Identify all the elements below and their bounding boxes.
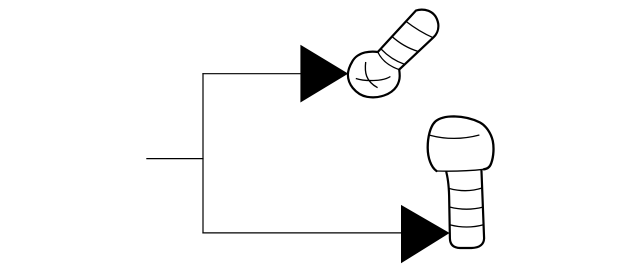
screw S1: shaft <box>378 10 439 70</box>
screw S1: head rim at shaft <box>378 52 399 70</box>
screw S1: phillips slot horizontal arc <box>356 77 391 81</box>
bolt B1: head (dome cap) fill and outline <box>428 116 494 171</box>
wire: vertical bus <box>202 73 204 233</box>
screw S1: phillips slot vertical arc <box>365 62 377 88</box>
bolt B1: thread line 1 <box>449 188 482 191</box>
bolt B1: shaft <box>446 165 484 248</box>
arrow to bolt (bottom) <box>401 205 450 263</box>
bolt B1: thread line 2 <box>450 207 484 209</box>
screw S1: thread line 1 (cap base) <box>406 21 434 38</box>
screw S1: thread line 3 <box>381 49 405 65</box>
wire: bottom branch <box>202 232 401 234</box>
wire: top branch <box>202 73 301 75</box>
bolt B1: head crease line <box>430 135 480 138</box>
bolt B1: head bottom edge <box>437 169 484 171</box>
arrow to screw (top) <box>300 45 348 103</box>
screw S1: thread line 2 <box>392 36 419 52</box>
wire: left stub <box>146 158 203 160</box>
screw S1: head (pan head) <box>348 52 400 98</box>
bolt B1: thread line 3 <box>450 225 484 227</box>
